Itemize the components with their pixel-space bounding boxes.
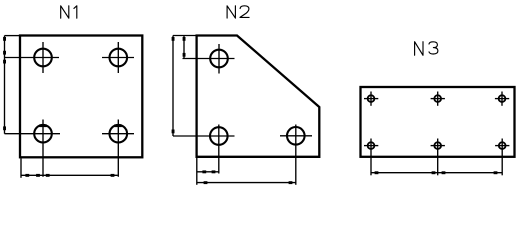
N1 left dim arrow a3 — [3, 60, 6, 64]
N2 bottom dim2 arrow d4 — [289, 181, 293, 184]
N3 hole top-middle crosshair — [431, 98, 445, 100]
plate N3 outline — [361, 87, 515, 157]
N3 bottom dimension line — [371, 172, 502, 174]
N1 bottom dim arrow b3 — [46, 174, 50, 177]
N3 hole bottom-right crosshair horizontal — [495, 145, 509, 147]
N1 hole top-right crosshair horizontal — [102, 57, 134, 59]
N2 bottom first dimension line — [197, 171, 219, 173]
N3 hole top-left — [368, 95, 375, 102]
N1 hole bottom-left — [34, 125, 52, 143]
N3 bottom dim arrow e4 — [494, 171, 498, 174]
N3 hole bottom-right — [499, 142, 506, 149]
N2 hole bottom-left centerline vertical (extends to bottom dim line) — [218, 125, 220, 174]
N2 bottom dim2 arrow d3 — [204, 181, 208, 184]
N3 hole bottom-right centerline vertical (to bottom dim line) — [501, 139, 503, 176]
N1 bottom-left tick mark above hole — [39, 124, 47, 127]
N2 bottom dim1 arrow d2 — [212, 170, 216, 173]
N1 left dimension line — [4, 36, 6, 134]
N1 hole top-left crosshair horizontal (extends to left dim line) — [5, 57, 60, 59]
N2 left inner dim arrow c4 — [183, 53, 186, 57]
N2 hole top-left crosshair vertical — [218, 44, 220, 74]
N1 bottom dim arrow b1 — [25, 174, 29, 177]
N3 hole bottom-left crosshair horizontal — [364, 145, 378, 147]
N2 hole bottom-left — [210, 127, 228, 145]
plate N1 outline — [20, 36, 142, 158]
N1 bottom dim arrow b2 — [36, 174, 40, 177]
N3 hole top-right — [499, 95, 506, 102]
N1 hole bottom-right — [110, 125, 128, 143]
plate N2 outline (chamfered) — [197, 36, 320, 157]
label N3 — [415, 42, 438, 56]
N2 left outer dim arrow c2 — [172, 130, 175, 134]
N2 left dims top extension line — [173, 35, 196, 37]
N2 left outer dimension line — [172, 36, 174, 137]
N2 bottom dims left extension line — [196, 158, 198, 185]
N3 bottom dim arrow e2 — [432, 171, 436, 174]
N3 hole top-middle — [434, 95, 441, 102]
N2 hole bottom-right crosshair horizontal — [280, 135, 312, 137]
N2 left inner dim arrow c3 — [183, 37, 186, 41]
N2 hole bottom-left crosshair horizontal (extends to outer dim line) — [173, 135, 235, 137]
N3 hole bottom-middle centerline vertical (to bottom dim line) — [437, 139, 439, 176]
N1 left dim arrow a2 — [3, 51, 6, 55]
N3 bottom dim arrow e1 — [375, 171, 379, 174]
N1 hole top-left crosshair vertical — [42, 42, 44, 73]
N1 hole top-left — [34, 49, 52, 67]
N1 hole top-right — [110, 49, 128, 67]
N2 bottom second dimension line — [197, 182, 296, 184]
label N1 — [61, 6, 77, 18]
N2 hole top-left — [210, 50, 228, 68]
N1 bottom dim arrow b4 — [111, 174, 115, 177]
N1 hole bottom-left centerline vertical (extends to bottom dim line) — [42, 120, 44, 177]
N1 left dim arrow a1 — [3, 37, 6, 41]
N3 hole bottom-left — [368, 142, 375, 149]
N1 bottom-right tick mark above hole — [114, 124, 122, 127]
N2 bottom dim1 arrow d1 — [202, 170, 206, 173]
N1 left dim arrow a4 — [3, 126, 6, 130]
N1 bottom dimension line — [21, 174, 118, 176]
N3 hole bottom-middle — [434, 142, 441, 149]
N1 bottom dim left extension line — [20, 159, 22, 178]
N3 hole bottom-left centerline vertical (to bottom dim line) — [370, 139, 372, 176]
N2 left outer dim arrow c1 — [172, 37, 175, 41]
N2 hole bottom-right — [287, 127, 305, 145]
N1 hole bottom-right centerline vertical (extends to bottom dim line) — [117, 120, 119, 177]
label N2 — [227, 6, 249, 18]
N2 left inner dimension line — [183, 36, 185, 59]
N3 hole bottom-middle crosshair horizontal — [431, 145, 445, 147]
N3 hole top-left crosshair — [364, 98, 378, 100]
N1 left dim top extension line — [5, 35, 20, 37]
N3 bottom dim arrow e3 — [442, 171, 446, 174]
N2 hole bottom-right centerline vertical (extends to bottom dim line) — [295, 125, 297, 185]
N1 hole top-right crosshair vertical — [117, 42, 119, 73]
N2 hole top-left crosshair horizontal (extends to inner dim line) — [183, 58, 235, 60]
N1 hole bottom-right crosshair horizontal — [102, 133, 134, 135]
N1 hole bottom-left crosshair horizontal (extends to left dim line) — [5, 133, 61, 135]
N3 hole top-right crosshair — [495, 98, 509, 100]
